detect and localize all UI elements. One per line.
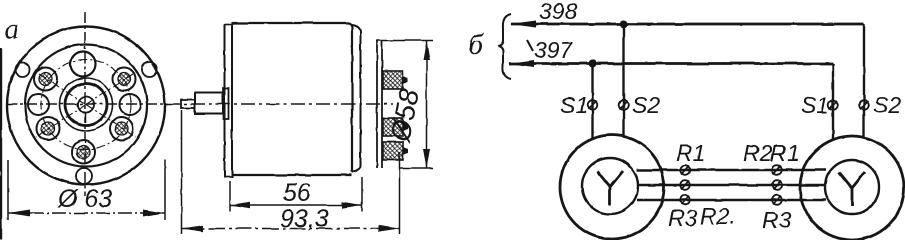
- dimension 93.3 arrow right: [378, 225, 400, 231]
- side view body right cap: [352, 25, 361, 172]
- svg-text:R3: R3: [762, 207, 792, 233]
- side view centerline: [166, 103, 393, 105]
- wire S1 right vertical: [832, 64, 834, 141]
- svg-text:S1: S1: [560, 92, 588, 118]
- front view outer flange circle: [7, 27, 165, 185]
- terminal S2 left: [619, 100, 629, 110]
- svg-text:а: а: [5, 14, 19, 45]
- front view screw terminal lower-left: [37, 117, 60, 140]
- dimension 56 extension right: [361, 177, 363, 211]
- svg-text:R2.: R2.: [700, 203, 736, 229]
- dimension 56 arrow left: [230, 202, 250, 208]
- side view shaft: [195, 93, 223, 114]
- front view vertical centerline: [84, 12, 86, 196]
- svg-text:S1: S1: [801, 92, 829, 118]
- side view body outline: [232, 23, 352, 175]
- brace for schematic b: [498, 14, 511, 79]
- side view terminal board: [376, 40, 378, 168]
- front view bolt circle (dash-dot): [41, 60, 131, 150]
- dimension D63 line: [8, 212, 165, 214]
- dimension D58 arrow bottom: [423, 149, 430, 168]
- wire R1: [637, 169, 826, 172]
- terminal R1 left: [680, 165, 690, 175]
- svg-text:Ø 63: Ø 63: [57, 185, 112, 213]
- front view rim hole bottom: [76, 168, 92, 184]
- front view center shaft hole small: [78, 97, 94, 113]
- terminal R3 right: [772, 195, 782, 205]
- front view screw terminal lower-right: [110, 117, 133, 140]
- stray mark: [527, 40, 533, 51]
- dimension 56 arrow right: [342, 202, 362, 208]
- front view diagonal centerline lower-left: [36, 105, 86, 138]
- svg-text:S2: S2: [632, 92, 660, 118]
- terminal R3 left: [680, 195, 690, 205]
- junction node on 397: [589, 60, 597, 68]
- wire 397 arrow: [508, 60, 534, 67]
- front view top hole: [71, 52, 96, 77]
- dimension 93.3 extension left: [181, 110, 183, 234]
- front view screw terminal upper-left: [34, 68, 57, 91]
- scan artifact left edge bar: [0, 48, 2, 240]
- terminal R2 left: [680, 180, 690, 190]
- wire S1 left vertical: [591, 64, 593, 140]
- svg-text:R3: R3: [668, 205, 698, 231]
- side view flange left double line: [224, 24, 226, 178]
- dimension D58 extension top: [388, 40, 433, 42]
- front view screw terminal upper-right: [113, 68, 136, 91]
- terminal R1 right: [772, 165, 782, 175]
- wire R3: [637, 199, 826, 202]
- terminal S1 left: [588, 100, 598, 110]
- svg-text:R1: R1: [676, 140, 705, 166]
- wire S2 right vertical: [863, 24, 865, 138]
- terminal S1 right: [828, 100, 838, 110]
- dimension D58 line: [426, 41, 428, 168]
- front view center boss circle thin: [60, 78, 113, 131]
- dimension 56 extension left: [229, 181, 231, 211]
- wire 397 right corner: [832, 62, 834, 65]
- front view diagonal centerline lower-right: [86, 105, 136, 138]
- front view diagonal centerline upper-right: [86, 72, 136, 105]
- terminal R2 right: [772, 180, 782, 190]
- synchro transmitter left wye winding symbol: [597, 171, 623, 205]
- dimension 93.3 line: [182, 228, 400, 230]
- svg-text:R2: R2: [743, 140, 773, 166]
- dimension D63 extension line left: [7, 160, 9, 220]
- wire 397: [509, 62, 833, 65]
- svg-text:398: 398: [539, 0, 578, 24]
- synchro receiver right outer circle: [800, 136, 904, 240]
- front view horizontal centerline: [6, 103, 168, 105]
- synchro transmitter left inner circle: [582, 158, 638, 214]
- dimension D63 extension line right: [164, 160, 166, 220]
- front view rim hole upper-right: [142, 62, 157, 77]
- wire 398 arrow: [510, 21, 536, 28]
- dimension D58 extension bottom: [400, 167, 433, 169]
- front view diagonal centerline upper-left: [36, 72, 86, 105]
- dimension D63 arrow right: [143, 210, 165, 217]
- dimension D63 arrow left: [8, 210, 30, 217]
- terminal S2 right: [859, 100, 869, 110]
- svg-text:93,3: 93,3: [280, 205, 329, 233]
- wire R2: [638, 184, 825, 187]
- svg-text:R1: R1: [770, 140, 799, 166]
- junction node on 398: [620, 20, 628, 28]
- front view inner flange circle: [25, 45, 147, 167]
- dimension 93.3 arrow left: [182, 225, 204, 231]
- svg-text:56: 56: [283, 179, 311, 207]
- front view rim hole upper-left: [16, 63, 30, 77]
- side view terminal screw 3: [383, 142, 408, 160]
- wire S2 left vertical: [622, 24, 624, 137]
- front view screw terminal bottom: [72, 141, 95, 164]
- dimension 93.3 extension right: [399, 152, 401, 234]
- side view shaft boss: [223, 88, 229, 119]
- synchro receiver right wye winding symbol: [839, 172, 865, 206]
- dimension 56 line: [230, 204, 362, 206]
- front view left hole: [28, 94, 49, 115]
- synchro receiver right inner circle: [825, 160, 879, 214]
- synchro transmitter left outer circle: [560, 135, 664, 239]
- side view shaft tip: [181, 100, 195, 109]
- svg-text:397: 397: [534, 37, 574, 63]
- side view terminal screw 2: [383, 118, 408, 136]
- svg-text:б: б: [468, 28, 484, 61]
- front view center boss circle bold: [65, 84, 107, 126]
- wire 398: [511, 23, 864, 26]
- dimension D58 arrow top: [423, 41, 430, 60]
- front view right hole: [120, 94, 141, 115]
- svg-text:S2: S2: [873, 92, 901, 118]
- side view terminal screw 1: [383, 71, 408, 89]
